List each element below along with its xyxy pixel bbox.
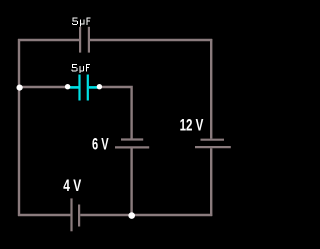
- wire: bottom rail left segment (bottom-left corner to 4V battery): [18, 214, 70, 216]
- battery B3 4V long plate (left): [70, 198, 72, 231]
- capacitor C2 5µF (cyan) left lead: [67, 86, 79, 89]
- wire: middle branch gray segment (C2 right node to corner) and vertical down to 6V battery: [101, 87, 132, 139]
- capacitor C2 5µF (cyan) left plate: [78, 75, 80, 101]
- svg-text:4 V: 4 V: [63, 177, 81, 195]
- svg-text:12 V: 12 V: [180, 117, 204, 135]
- wire: top rail left segment (top-left corner to C1 left plate): [18, 39, 79, 41]
- wire: top rail right segment (C1 right plate to top-right corner): [90, 39, 212, 41]
- battery B2 12V short plate (top): [201, 139, 225, 141]
- battery B1 6V short plate (top): [121, 138, 143, 140]
- value label 5µF for C1: [72, 18, 91, 27]
- battery B3 4V short plate (right): [78, 205, 80, 227]
- capacitor C2 5µF (cyan) right plate: [87, 75, 89, 101]
- node: junction on left rail: [17, 85, 23, 91]
- wire: right vertical rail lower segment (12V battery to bottom-right corner): [210, 148, 212, 216]
- capacitor C1 5µF (top, gray) right plate: [88, 27, 90, 53]
- svg-text:6 V: 6 V: [92, 136, 109, 154]
- node: C2 left terminal: [65, 84, 70, 89]
- wire: left vertical rail: [18, 39, 20, 216]
- wire: right vertical rail upper segment (to 12V battery): [210, 39, 212, 139]
- capacitor C1 5µF (top, gray) left plate: [79, 27, 81, 53]
- wire: middle branch gray segment (left rail junction to C2 left node): [19, 86, 66, 88]
- wire: middle branch vertical (6V battery to bottom junction): [130, 149, 132, 216]
- node: C2 right terminal: [97, 84, 102, 89]
- battery B1 6V long plate (bottom): [115, 146, 149, 148]
- battery B2 12V long plate (bottom): [195, 146, 231, 148]
- wire: bottom rail right segment (4V battery to bottom-right corner): [80, 214, 212, 216]
- node: junction on bottom rail: [128, 212, 135, 219]
- value label 5µF for C2: [71, 64, 90, 73]
- capacitor C2 5µF (cyan) right lead: [89, 86, 101, 89]
